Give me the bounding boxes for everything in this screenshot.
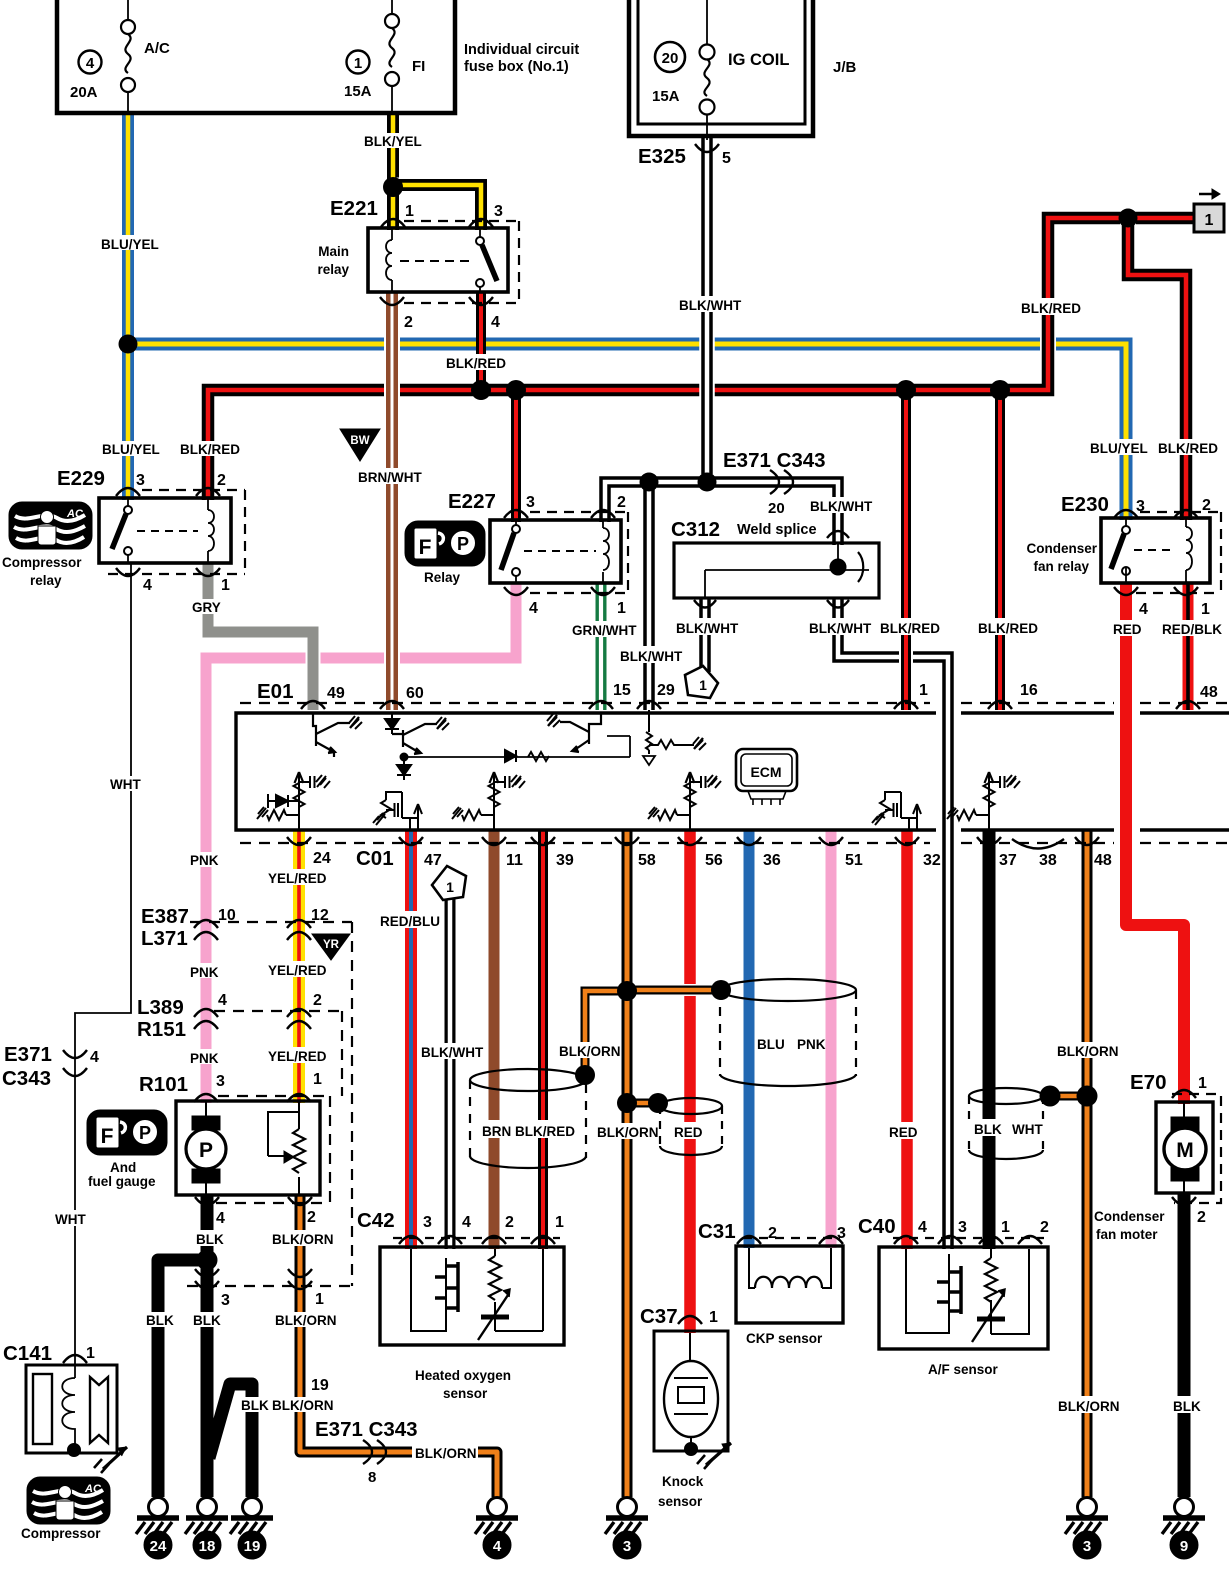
svg-text:5: 5 [722,150,731,167]
svg-text:20: 20 [662,50,679,67]
wire BLK/WHT E325 down [699,138,715,482]
svg-text:1: 1 [1205,212,1214,229]
CKP sensor C31 [736,1246,843,1323]
wire YEL/RED ECM pin24 to R101 pin1 [293,830,305,1103]
svg-text:WHT: WHT [110,777,141,792]
icon FP fuel pump [87,1110,167,1155]
svg-text:BRN/WHT: BRN/WHT [358,470,422,485]
svg-text:15A: 15A [344,83,372,100]
connector E387 L371 row pins 3 1 [187,1285,352,1287]
ground 3 right [1065,1498,1108,1560]
wire BLK/YEL branch to E221 pin3 [393,185,481,230]
label And fuel gauge [88,1160,156,1189]
svg-text:2: 2 [768,1225,777,1242]
label fuse 4 circle [79,51,102,74]
label BLK/RED pin16 [975,618,1038,636]
svg-text:fuel gauge: fuel gauge [88,1174,156,1189]
svg-text:24: 24 [313,850,331,867]
label BLU PNK cylinder [757,1037,826,1052]
svg-text:4: 4 [90,1049,99,1066]
connector C01 pin chevrons [287,837,1099,849]
svg-text:RED/BLU: RED/BLU [380,914,440,929]
svg-text:C31: C31 [698,1220,736,1243]
node BLKWHT cylinder shield dot [1040,1086,1061,1107]
connector R101 row pins 3 1 [218,1095,330,1097]
svg-text:Weld splice: Weld splice [737,522,817,538]
svg-text:12: 12 [311,907,329,924]
svg-text:3: 3 [623,1538,631,1555]
wire shield link to CKP cylinder [627,984,721,996]
svg-text:8: 8 [368,1469,376,1486]
wire BLK/WHT E227 pin2 to C312 input [605,482,838,545]
arrow connector 1 at pin47 [432,866,466,900]
label BLK/RED pin1 [877,618,940,636]
connector E01 pin chevrons [301,701,1200,709]
svg-text:19: 19 [244,1538,261,1555]
label BLK g18 [190,1312,224,1328]
svg-text:4: 4 [143,577,152,594]
connector E230 pin chevrons [1114,510,1198,595]
connector E70 dashed box [1172,1094,1221,1203]
svg-text:3: 3 [1083,1538,1091,1555]
svg-text:3: 3 [216,1073,225,1090]
svg-text:39: 39 [556,852,574,869]
node BLU/YEL junction [119,335,138,354]
wire BLK/WHT junction to ECM pin29 [641,482,657,710]
off-page connector box 1 [1194,189,1224,232]
connector C312 output chevrons [694,600,849,608]
svg-text:BLK/WHT: BLK/WHT [620,649,683,664]
node knock shield dot [648,1093,668,1113]
ground 18 [185,1498,228,1560]
svg-text:4: 4 [1139,601,1148,618]
svg-text:relay: relay [317,262,349,277]
label BLK/YEL [362,133,430,149]
ECM INTERNAL CIRCUITRY [257,710,1020,830]
svg-text:relay: relay [30,573,62,588]
svg-text:BLK/ORN: BLK/ORN [597,1125,659,1140]
svg-text:E371: E371 [4,1043,52,1066]
svg-text:BLK/WHT: BLK/WHT [679,298,742,313]
svg-text:3: 3 [526,494,535,511]
symbol BW triangle [340,429,380,461]
ECM box [236,713,1229,830]
svg-text:E01: E01 [257,680,293,703]
label GRY [190,599,226,615]
node BLK/YEL junction E221 [383,177,403,197]
svg-text:4: 4 [462,1214,471,1231]
label RED af [886,1122,924,1140]
svg-text:BLK/WHT: BLK/WHT [676,621,739,636]
svg-text:Main: Main [318,244,349,259]
svg-text:3: 3 [1136,498,1145,515]
icon AC compressor [27,1477,110,1524]
connector C312 input chevron [827,531,849,538]
label Condenser fan moter [1094,1209,1165,1242]
svg-text:BLK/WHT: BLK/WHT [421,1045,484,1060]
svg-text:BLK/RED: BLK/RED [180,442,240,457]
label Main relay [317,244,349,277]
svg-text:1: 1 [919,682,928,699]
ground 9 [1162,1498,1205,1560]
svg-text:BLK: BLK [974,1122,1002,1137]
fuse 20 IG COIL 15A [700,45,715,115]
svg-text:15A: 15A [652,88,680,105]
svg-text:L389: L389 [137,996,184,1019]
svg-text:fan relay: fan relay [1033,559,1089,574]
svg-text:1: 1 [221,577,230,594]
svg-text:BLK/RED: BLK/RED [1021,301,1081,316]
wire BLK/RED bus to ECM pin16 [993,390,1007,710]
svg-text:1: 1 [617,600,626,617]
svg-text:3: 3 [494,203,503,220]
label WHT upper [107,776,147,792]
fuel pump R101 [176,1101,320,1195]
svg-text:RED/BLK: RED/BLK [1162,622,1222,637]
connector L389 R151 row pins 4 2 [214,1010,342,1012]
wire fuse1 lead top [391,0,393,15]
svg-text:1: 1 [446,879,454,895]
svg-text:1: 1 [86,1345,95,1362]
svg-text:E230: E230 [1061,493,1109,516]
svg-text:BLK/ORN: BLK/ORN [275,1313,337,1328]
wire RED/BLU ECM pin47 to C42 pin3 [405,830,417,1249]
svg-text:36: 36 [763,852,781,869]
label WHT lower [52,1210,92,1227]
svg-text:32: 32 [923,852,941,869]
shield cylinder knock sensor [660,1098,722,1155]
svg-text:18: 18 [199,1538,216,1555]
svg-text:YR: YR [323,939,340,951]
svg-text:fuse box (No.1): fuse box (No.1) [464,59,569,75]
wire BLK/RED bus to E227 pin3 [511,390,521,522]
label BLK/ORN mid [272,1312,337,1328]
connector E387 L371 row pins 10 12 [190,921,352,923]
svg-text:47: 47 [424,852,442,869]
svg-text:60: 60 [406,685,424,702]
label Condenser fan relay [1026,541,1097,574]
svg-text:WHT: WHT [1012,1122,1043,1137]
svg-text:Knock: Knock [662,1474,704,1489]
mosfet cluster M2 to pin32 [872,792,921,830]
label fuse 20 circle [655,42,685,72]
node bus junction pin16 [990,380,1010,400]
svg-text:R101: R101 [139,1073,188,1096]
svg-text:C37: C37 [640,1305,678,1328]
ground 19 [230,1498,273,1560]
svg-text:fan moter: fan moter [1096,1227,1158,1242]
label BLK g24 [143,1312,177,1328]
wire BLK/RED ECM pin39 to C42 pin1 [538,830,548,1249]
svg-text:GRN/WHT: GRN/WHT [572,623,637,638]
connector E221 dashed box [404,221,519,303]
svg-text:3: 3 [958,1219,967,1236]
svg-text:E371 C343: E371 C343 [315,1418,418,1441]
label RED knock [671,1122,709,1140]
svg-text:4: 4 [218,992,227,1009]
label BLK pump [193,1230,227,1247]
label fuse 1 circle [347,51,370,74]
svg-text:2: 2 [217,472,226,489]
relay E227 FP relay [490,520,621,583]
label BLK g19 [238,1397,272,1413]
node BLK/ORN junction upper [617,981,637,1001]
input cluster pin24 [257,772,330,829]
connector E325 pin5 chevron [695,144,719,152]
svg-text:2: 2 [505,1214,514,1231]
svg-text:1: 1 [555,1214,564,1231]
heated oxygen sensor C42 [380,1247,564,1345]
svg-text:48: 48 [1094,852,1112,869]
input cluster pin11 [452,772,525,829]
connector C37 pin1 chevron [678,1316,702,1324]
svg-text:2: 2 [404,314,413,331]
label BLK/WHT C312 right [806,618,872,636]
node O2 shield dot [575,1065,595,1085]
svg-text:YEL/RED: YEL/RED [268,963,327,978]
wire BLK ECM pin37 to C40 pin1 [983,830,996,1249]
svg-text:GRY: GRY [192,600,221,615]
wire BRN/WHT E221 pin2 to ECM pin60 [384,291,400,710]
connector C40 row [893,1237,1044,1239]
svg-text:PNK: PNK [190,853,219,868]
svg-text:3: 3 [221,1292,230,1309]
svg-text:BLU/YEL: BLU/YEL [101,237,159,252]
svg-text:BLK/ORN: BLK/ORN [415,1446,477,1461]
svg-text:3: 3 [837,1225,846,1242]
wire RED ECM pin56 to C37 knock sensor [684,830,696,1333]
svg-text:BLK/RED: BLK/RED [978,621,1038,636]
connector E227 pin chevrons [504,510,615,595]
arrow connector 1 at C312 output [685,666,718,698]
connector R101 row pins 4 2 [216,1202,330,1204]
svg-text:Individual circuit: Individual circuit [464,42,579,58]
input cluster pin56 [648,772,721,829]
node bus junction E221 pin4 [471,380,491,400]
label E387 L371 [141,905,189,950]
wire BLU ECM pin36 to C31 pin2 [744,830,755,1248]
svg-text:1: 1 [405,203,414,220]
svg-text:4: 4 [529,600,538,617]
label BLK/ORN 58b [594,1123,659,1140]
svg-text:4: 4 [216,1210,225,1227]
svg-text:PNK: PNK [190,1051,219,1066]
svg-text:BLU: BLU [757,1037,785,1052]
icon FP relay [405,521,485,566]
svg-text:11: 11 [506,852,523,869]
svg-text:20: 20 [768,500,785,517]
svg-text:2: 2 [313,992,322,1009]
svg-text:15: 15 [613,682,631,699]
shield cylinder O2 sensor [470,1069,586,1168]
wire BLU/YEL fuse4 to E229 pin3 [122,115,134,500]
connector E230 dashed box [1136,512,1221,593]
label BLK/WHT 20 [807,497,873,514]
label fuse box name [464,42,579,75]
label RED/BLU [377,911,441,929]
svg-text:48: 48 [1200,684,1218,701]
node bus junction pin1 [896,380,916,400]
svg-text:BLK/WHT: BLK/WHT [810,499,873,514]
svg-text:And: And [110,1160,136,1175]
svg-text:BLK: BLK [196,1232,224,1247]
connector C01 dashed row [240,842,1229,844]
svg-text:BLK/RED: BLK/RED [1158,441,1218,456]
connector C42 row [393,1237,560,1239]
svg-text:ECM: ECM [750,764,781,780]
label BLK WHT cylinder [967,1119,1053,1137]
wire RED ECM pin32 to C40 pin4 [901,830,913,1249]
label GRN/WHT [570,621,638,638]
svg-text:M: M [1176,1139,1194,1162]
svg-text:R151: R151 [137,1018,186,1041]
connector C31 row [743,1237,840,1239]
svg-text:2: 2 [1202,497,1211,514]
relay E221 main relay [368,228,508,292]
label PNK 2 [187,963,223,980]
svg-text:RED: RED [889,1125,918,1140]
node Q2 emitter [400,753,408,761]
label Knock sensor [658,1474,704,1509]
connector E221 pin chevrons [380,219,493,305]
svg-text:BLK: BLK [1173,1399,1201,1414]
svg-text:P: P [199,1139,213,1162]
condenser fan motor E70 [1156,1102,1213,1193]
ground 24 [136,1498,179,1560]
svg-text:29: 29 [657,682,675,699]
wire BLK/WHT C312 left output to arrow 1 [699,598,711,672]
resistor chain pin29 [643,710,706,765]
label Compressor relay [2,555,82,588]
svg-text:1: 1 [1201,601,1210,618]
label YEL/RED 3 [265,1047,329,1064]
svg-text:IG COIL: IG COIL [728,51,789,69]
svg-text:1: 1 [1001,1219,1010,1236]
node BLK/WHT junction at pin29 wire [640,473,659,492]
svg-text:4: 4 [918,1219,927,1236]
wire BLK E70 pin2 to ground9 [1178,1193,1191,1497]
label YEL/RED 1 [265,869,329,886]
svg-text:BLK: BLK [146,1313,174,1328]
svg-text:1: 1 [699,677,707,693]
svg-text:37: 37 [999,852,1017,869]
fuse 1 FI 15A [385,14,399,86]
transistor Q2 pin60 [392,717,449,754]
svg-text:2: 2 [1040,1219,1049,1236]
svg-text:FI: FI [412,58,425,75]
label RED/BLK [1160,620,1222,637]
svg-text:BLK: BLK [193,1313,221,1328]
wire fuse4 lead top [127,0,129,21]
wire BLK/RED branch to E230 pin2 [1128,218,1186,520]
svg-text:BLK/YEL: BLK/YEL [364,134,422,149]
connector E01 dashed row [240,702,1229,704]
svg-text:A/F sensor: A/F sensor [928,1362,999,1377]
svg-text:C343: C343 [2,1067,51,1090]
svg-text:BW: BW [350,435,369,447]
svg-text:Condenser: Condenser [1026,541,1097,556]
svg-text:BLK/ORN: BLK/ORN [1058,1399,1120,1414]
connector E371 C343 marks left [63,1050,87,1076]
shield cylinder AF sensor [969,1088,1043,1159]
svg-text:BLK/ORN: BLK/ORN [272,1232,334,1247]
svg-text:BLK/WHT: BLK/WHT [809,621,872,636]
wire BLK/RED bus [208,218,1196,500]
svg-text:E325: E325 [638,145,686,168]
label BLK/RED E229 [178,441,242,457]
connector E70 pin chevrons [1172,1090,1196,1205]
symbol YR triangle [312,934,350,960]
svg-text:Condenser: Condenser [1094,1209,1165,1224]
node BLK/RED junction at top right [1119,209,1138,228]
svg-text:YEL/RED: YEL/RED [268,871,327,886]
connector E229 pin chevrons [116,488,220,576]
svg-text:CKP sensor: CKP sensor [746,1331,823,1346]
label PNK 3 [187,1049,223,1066]
label BRN BLK/RED cylinder [479,1120,575,1139]
svg-text:Relay: Relay [424,570,461,585]
label BLK/ORN 58a [556,1042,621,1059]
label BLK/WHT pin29 [617,646,683,664]
svg-text:24: 24 [150,1538,167,1555]
svg-text:BLU/YEL: BLU/YEL [102,442,160,457]
svg-text:WHT: WHT [55,1212,86,1227]
svg-text:C40: C40 [858,1215,896,1238]
wire RED E230 pin4 to E70 pin1 [1126,583,1184,1104]
svg-text:BLK/ORN: BLK/ORN [1057,1044,1119,1059]
svg-text:C141: C141 [3,1342,52,1365]
compressor connector C141 [26,1365,127,1473]
ground 4 [475,1498,518,1560]
svg-text:20A: 20A [70,84,98,101]
label RED E230 [1111,620,1144,637]
svg-text:sensor: sensor [658,1494,703,1509]
svg-text:C42: C42 [357,1209,395,1232]
svg-text:RED: RED [674,1125,703,1140]
svg-text:A/C: A/C [144,40,170,57]
label BLK/ORN pump [269,1230,334,1247]
svg-text:2: 2 [1197,1209,1206,1226]
transistor Q1 pin49 [313,713,362,757]
svg-text:PNK: PNK [797,1037,826,1052]
label PNK 1 [187,852,223,868]
label BLK/ORN 48 upper [1054,1042,1119,1059]
wire shield link to O2 cylinder [585,991,627,1073]
node BLK junction R101 [197,1250,218,1271]
resistor R-bias [528,752,549,761]
svg-text:16: 16 [1020,682,1038,699]
svg-text:BRN: BRN [482,1124,511,1139]
connector E371 C343 marks on BLK/WHT [770,470,793,494]
connector E371 C343 marks on BLK/ORN [363,1440,386,1464]
svg-text:3: 3 [423,1214,432,1231]
svg-text:C312: C312 [671,518,720,541]
label BLK/ORN bottom [412,1444,478,1461]
relay E229 compressor relay [99,498,231,563]
svg-text:1: 1 [1198,1075,1207,1092]
mosfet cluster M1 to pin47 [373,792,422,830]
wire BLK/RED E221 pin4 to bus [476,291,486,396]
wire GRN/WHT E227 pin1 to ECM pin15 [594,583,609,710]
wire BLK branch to ground24 [158,1260,207,1497]
relay E230 condenser fan relay [1101,518,1210,583]
label BRN/WHT [356,468,426,485]
label ground numbers [150,1538,1189,1555]
svg-text:YEL/RED: YEL/RED [268,1049,327,1064]
svg-text:E221: E221 [330,197,378,220]
label Heated oxygen sensor [415,1368,511,1401]
label BLU/YEL left [99,235,167,252]
